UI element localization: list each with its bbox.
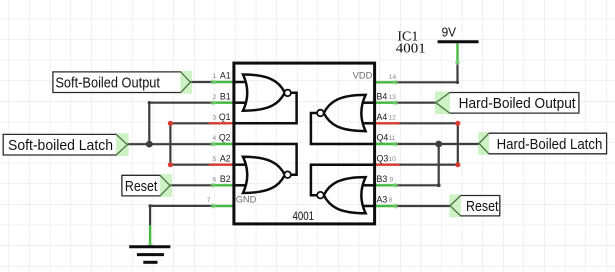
9V supply pin stub bbox=[456, 43, 458, 64]
svg-text:6: 6 bbox=[213, 177, 217, 184]
svg-text:13: 13 bbox=[389, 94, 397, 101]
wire: IC1 pin 2 (B1) left then down to soft-latch junction bbox=[149, 103, 215, 144]
pin 12 stub (A4, unconnected end, red) bbox=[375, 122, 399, 124]
pin name labels right side bbox=[377, 91, 389, 204]
pin 6 stub (B2) bbox=[213, 184, 234, 186]
red bendpoint A4 end bbox=[455, 121, 460, 126]
wire: IC1 pin 14 (VDD) right then up to 9V supply bbox=[394, 64, 458, 83]
svg-text:4: 4 bbox=[213, 135, 217, 142]
svg-text:7: 7 bbox=[207, 197, 211, 204]
svg-text:1: 1 bbox=[213, 73, 217, 80]
svg-text:2: 2 bbox=[213, 94, 217, 101]
svg-text:VDD: VDD bbox=[353, 70, 373, 80]
svg-text:B2: B2 bbox=[220, 174, 231, 184]
pin 11 stub (Q4) bbox=[375, 143, 396, 145]
NOR gate IC1-B (bottom-left) bbox=[234, 144, 297, 193]
junction: hard-boiled latch node bbox=[435, 141, 442, 148]
svg-text:Hard-Boiled Output: Hard-Boiled Output bbox=[459, 95, 577, 112]
svg-text:10: 10 bbox=[389, 156, 397, 163]
wire: Soft-boiled Latch label through junction to IC1 pin 4 (Q2) bbox=[127, 143, 215, 145]
svg-text:Q3: Q3 bbox=[377, 153, 389, 163]
pin 13 stub (B4) bbox=[375, 101, 396, 103]
bendpoint on B1 wire bbox=[148, 101, 151, 104]
pin 1 stub (A1) bbox=[213, 81, 234, 83]
wire: Soft-Boiled Output label to IC1 pin 1 (A1) bbox=[190, 81, 215, 83]
svg-text:5: 5 bbox=[213, 156, 217, 163]
svg-text:11: 11 bbox=[389, 135, 396, 142]
bendpoint on VDD wire bbox=[456, 81, 459, 84]
net label Hard-Boiled Latch bbox=[478, 132, 606, 155]
svg-text:4001: 4001 bbox=[396, 41, 426, 56]
svg-text:Soft-Boiled Output: Soft-Boiled Output bbox=[55, 75, 160, 92]
wire: IC1 pin 11 (Q4) through junction to Hard-Boiled Latch label bbox=[394, 143, 479, 145]
red bendpoint Q1 end bbox=[168, 121, 173, 126]
junction: soft-boiled latch node bbox=[146, 141, 153, 148]
part designator IC1 4001 bbox=[396, 30, 426, 57]
wire: IC1 pin 13 (B4) to Hard-Boiled Output label bbox=[394, 102, 436, 104]
pin 5 stub (A2, unconnected end, red) bbox=[210, 163, 234, 165]
wire: IC1 pin 3 (Q1) to pin 5 (A2) feedback link bbox=[170, 123, 215, 164]
svg-text:14: 14 bbox=[389, 74, 397, 81]
net label Soft-boiled Latch bbox=[3, 133, 128, 156]
svg-text:Reset: Reset bbox=[125, 178, 158, 195]
ground symbol bbox=[129, 247, 170, 262]
NOR gate IC1-C (top-right, mirrored) bbox=[311, 95, 375, 144]
svg-text:Q2: Q2 bbox=[219, 133, 231, 143]
pin 10 stub (Q3, unconnected end, red) bbox=[375, 163, 399, 165]
ground pin stub bbox=[149, 225, 151, 246]
svg-text:A2: A2 bbox=[220, 153, 231, 163]
red bendpoint A2 end bbox=[168, 162, 173, 167]
svg-text:Q1: Q1 bbox=[219, 112, 231, 122]
svg-text:B3: B3 bbox=[377, 174, 388, 184]
pin 8 stub (A3) bbox=[375, 205, 396, 207]
svg-text:A3: A3 bbox=[377, 195, 388, 205]
pin 14 stub (VDD) bbox=[375, 81, 396, 83]
svg-text:9V: 9V bbox=[442, 26, 457, 40]
svg-text:8: 8 bbox=[389, 197, 393, 204]
svg-text:B1: B1 bbox=[220, 91, 231, 101]
svg-text:Hard-Boiled Latch: Hard-Boiled Latch bbox=[497, 136, 603, 153]
svg-text:A4: A4 bbox=[377, 112, 388, 122]
svg-text:Soft-boiled Latch: Soft-boiled Latch bbox=[8, 137, 113, 154]
wire: IC1 pin 7 (GND) left then down to ground bbox=[150, 206, 215, 226]
bendpoint on B3 wire bbox=[437, 183, 441, 187]
red bendpoint Q3 end bbox=[455, 162, 460, 167]
net label Reset (right) bbox=[449, 194, 499, 217]
svg-text:12: 12 bbox=[389, 115, 397, 122]
pin 4 stub (Q2) bbox=[213, 143, 234, 145]
svg-text:A1: A1 bbox=[220, 71, 231, 81]
connection-point markers (green blobs at connected pin ends) bbox=[148, 60, 461, 248]
9V supply symbol bbox=[438, 26, 479, 42]
svg-text:Reset: Reset bbox=[466, 198, 499, 215]
svg-text:4001: 4001 bbox=[293, 209, 315, 223]
net label Soft-Boiled Output bbox=[53, 71, 192, 94]
pin numbers left side 1-7 bbox=[207, 73, 217, 204]
pin 9 stub (B3) bbox=[375, 184, 396, 186]
wire: IC1 pin 8 (A3) to right Reset label bbox=[394, 205, 450, 207]
bendpoint on GND wire bbox=[148, 204, 151, 207]
svg-text:9: 9 bbox=[390, 177, 394, 184]
wire: hard-latch junction down to IC1 pin 9 (B3) bbox=[394, 144, 439, 185]
svg-text:Q4: Q4 bbox=[377, 133, 389, 143]
pin 3 stub (Q1, unconnected end, red) bbox=[210, 122, 234, 124]
svg-text:3: 3 bbox=[213, 115, 217, 122]
NOR gate IC1-A (top-left) bbox=[234, 75, 297, 124]
pin numbers right side 8-14 bbox=[389, 74, 397, 204]
wire: IC1 pin 12 (A4) to pin 10 (Q3) feedback link bbox=[394, 123, 458, 164]
pin name labels left side bbox=[219, 71, 231, 184]
pin 7 stub (GND) bbox=[213, 205, 234, 207]
IC1 4001 body outline bbox=[234, 63, 375, 224]
svg-text:GND: GND bbox=[236, 194, 257, 204]
net label Hard-Boiled Output bbox=[435, 91, 579, 114]
wire: left Reset label to IC1 pin 6 (B2) bbox=[170, 184, 215, 186]
NOR gate IC1-D (bottom-right, mirrored) bbox=[311, 165, 375, 214]
net label Reset (left) bbox=[122, 174, 172, 197]
pin 2 stub (B1) bbox=[213, 101, 234, 103]
svg-text:B4: B4 bbox=[377, 91, 388, 101]
